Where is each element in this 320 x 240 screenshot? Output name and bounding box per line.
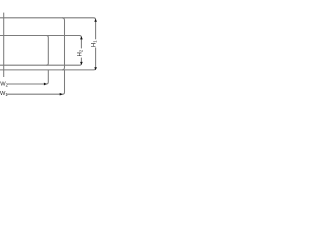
arrow H2 bottom — [80, 62, 83, 65]
svg-text:H1: H1 — [92, 40, 98, 47]
background — [0, 0, 100, 100]
inner panel right edge with rounded corners — [46, 36, 48, 66]
arrow H1 top — [94, 19, 97, 22]
svg-text:W1: W1 — [0, 91, 8, 97]
dimension path H2 (inner top edge line, curve, vertical, curve, inner bottom edge line) — [0, 36, 81, 66]
label H2 background — [79, 48, 84, 57]
left edge extension line — [3, 13, 5, 77]
svg-text:H2: H2 — [77, 49, 83, 56]
outer panel right edge with rounded corners — [62, 18, 65, 70]
dimension path W1 (extension down from bottom edge, curve, horizontal line) — [7, 70, 65, 94]
arrow H1 bottom — [94, 67, 97, 70]
dimension path H1 (top edge line, curve, vertical, curve, bottom edge line) — [0, 18, 96, 70]
label H1 background — [93, 39, 98, 47]
arrow W1 right — [60, 93, 63, 96]
arrow H2 top — [80, 36, 83, 39]
arrow W2 right — [44, 83, 47, 86]
svg-text:W2: W2 — [0, 82, 8, 88]
dimension path W2 (extension down from bottom edge, curve, horizontal line) — [8, 70, 49, 84]
